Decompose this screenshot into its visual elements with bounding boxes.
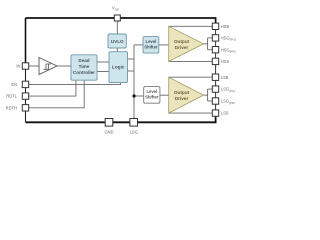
- svg-text:HSB: HSB: [221, 24, 230, 29]
- svg-text:Shifter: Shifter: [144, 44, 158, 49]
- svg-text:Output: Output: [174, 90, 190, 95]
- svg-text:Controller: Controller: [73, 70, 95, 75]
- svg-text:GND: GND: [104, 130, 113, 135]
- svg-text:Shifter: Shifter: [145, 95, 159, 100]
- svg-text:Dead: Dead: [78, 58, 89, 63]
- svg-text:RDTH: RDTH: [6, 105, 17, 110]
- svg-text:UVLO: UVLO: [111, 39, 124, 44]
- svg-text:Driver: Driver: [175, 45, 189, 50]
- svg-text:Level: Level: [146, 89, 157, 94]
- svg-text:IN: IN: [16, 64, 20, 69]
- svg-text:HSS: HSS: [221, 59, 230, 64]
- svg-text:Driver: Driver: [175, 96, 189, 101]
- svg-text:Level: Level: [146, 39, 157, 44]
- svg-text:RDTL: RDTL: [6, 94, 17, 99]
- svg-text:LSB: LSB: [221, 75, 229, 80]
- svg-text:EN: EN: [11, 82, 17, 87]
- svg-text:Logic: Logic: [112, 65, 125, 71]
- svg-text:Time: Time: [79, 64, 90, 69]
- svg-text:LSG: LSG: [130, 130, 138, 135]
- svg-text:Output: Output: [174, 39, 190, 44]
- svg-text:LSS: LSS: [221, 111, 229, 116]
